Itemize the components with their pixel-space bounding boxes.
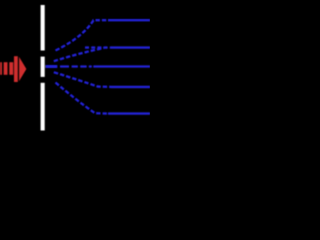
arrow shaft dash 3 xyxy=(9,62,13,75)
ray 2 horizontal tail xyxy=(112,46,151,48)
ray 2 up-shallow diagonal xyxy=(54,48,104,61)
ray 4 horizontal tail xyxy=(112,86,151,88)
ray 3 central horizontal xyxy=(46,65,151,67)
ray 3 central first thick dash xyxy=(46,65,58,68)
arrow head base slice xyxy=(14,56,18,82)
diffracted rays (blue dashed) xyxy=(46,20,151,113)
arrow head tip triangle xyxy=(19,57,26,81)
barrier middle segment xyxy=(41,57,45,77)
barrier bottom segment xyxy=(41,83,45,131)
barrier with two slits (white) xyxy=(41,5,45,131)
barrier top segment xyxy=(41,5,45,51)
ray 4 down-shallow diagonal xyxy=(54,72,112,87)
ray 1 horizontal tail xyxy=(108,19,150,21)
incident wave arrow (red, dashed shaft) xyxy=(0,56,26,82)
arrow shaft dash 2 xyxy=(4,62,8,75)
ray 1 up-steep diagonal xyxy=(56,20,109,50)
ray 2 horizontal dashed xyxy=(85,46,112,48)
ray 5 horizontal tail xyxy=(108,112,150,114)
ray 5 down-steep diagonal xyxy=(56,83,109,114)
arrow shaft dash 1 xyxy=(0,62,2,75)
